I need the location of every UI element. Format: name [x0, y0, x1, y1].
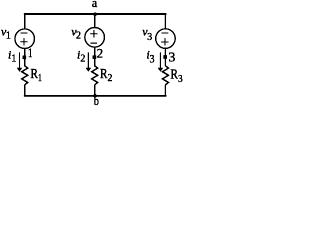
resistor R1 zigzag: [22, 66, 28, 85]
svg-text:3: 3: [168, 50, 175, 65]
voltage source v2 circle: [85, 28, 105, 48]
wire v3 to R3: [164, 48, 166, 66]
wire branch3 top stub: [164, 14, 166, 29]
svg-text:v2: v2: [71, 25, 81, 42]
wire R3 to bottom rail: [164, 85, 166, 97]
node b junction dot: [93, 94, 97, 98]
svg-text:2: 2: [97, 46, 104, 61]
svg-text:a: a: [92, 0, 98, 10]
branch 2 wire dot: [93, 55, 97, 59]
wire branch1 top stub: [24, 14, 26, 29]
node a junction dot: [93, 12, 97, 16]
v3 minus sign: [162, 32, 169, 34]
svg-text:i3: i3: [146, 48, 154, 66]
current arrow i2: [86, 52, 92, 72]
voltage source v1 circle: [15, 29, 35, 49]
svg-text:1: 1: [28, 45, 33, 60]
wire v1 to R1: [24, 49, 26, 67]
v3 plus sign: [161, 38, 169, 46]
v2 minus sign: [91, 42, 98, 44]
wire bottom rail: [24, 95, 167, 97]
svg-text:R3: R3: [170, 68, 183, 85]
branch 3 wire dot: [163, 55, 167, 59]
v2 plus sign: [90, 30, 98, 38]
wire branch2 top stub: [94, 14, 96, 28]
wire R2 to bottom rail: [94, 85, 96, 97]
svg-text:R2: R2: [100, 67, 113, 84]
v1 plus sign: [20, 38, 28, 46]
v1 minus sign: [20, 32, 27, 34]
wire top rail: [24, 13, 167, 15]
svg-text:v3: v3: [142, 25, 152, 43]
current arrow i1: [17, 52, 23, 72]
svg-text:i2: i2: [77, 48, 85, 65]
svg-text:R1: R1: [30, 67, 41, 84]
wire v2 to R2: [94, 47, 96, 66]
current arrow i3: [158, 52, 164, 72]
svg-text:i1: i1: [8, 48, 16, 65]
branch 1 wire dot: [23, 56, 27, 60]
wire R1 to bottom rail: [24, 85, 26, 97]
resistor R3 zigzag: [162, 66, 168, 85]
resistor R2 zigzag: [92, 66, 98, 85]
svg-text:v1: v1: [1, 25, 11, 42]
voltage source v3 circle: [156, 29, 176, 49]
svg-text:b: b: [94, 94, 99, 108]
